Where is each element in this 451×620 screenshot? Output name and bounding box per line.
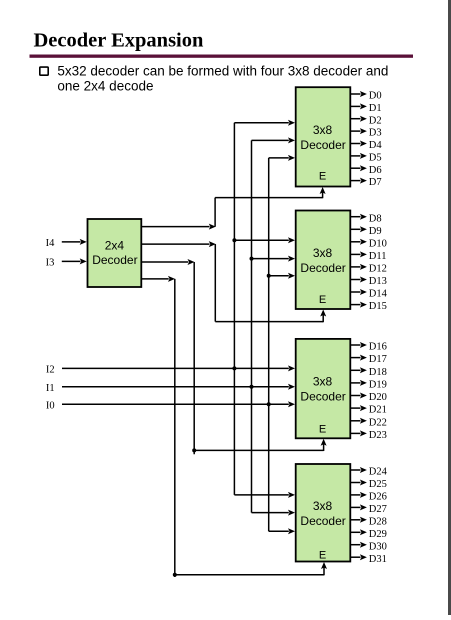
junction node (234,368) xyxy=(232,366,236,370)
wire enable E1 arrow into U2 xyxy=(320,187,326,198)
svg-text:D2: D2 xyxy=(369,115,382,126)
svg-text:D25: D25 xyxy=(369,479,387,490)
output D31 wire and label xyxy=(351,554,387,565)
bus wire vertical A0 (x=268.7) xyxy=(268,158,270,531)
svg-text:I4: I4 xyxy=(46,238,55,249)
bus wire vertical A1 (x=251.5) xyxy=(251,140,253,512)
svg-text:one 2x4 decode: one 2x4 decode xyxy=(57,79,153,94)
svg-text:D4: D4 xyxy=(369,140,383,151)
bus wire vertical A2 (x=234) xyxy=(233,123,235,495)
wire enable E2 arrow into U3 xyxy=(320,310,326,323)
wire bus to U3 input y=259 xyxy=(252,256,296,262)
wire bus to U5 input y=495 xyxy=(234,492,295,498)
svg-text:Decoder: Decoder xyxy=(300,514,345,528)
output D23 wire and label xyxy=(351,430,387,441)
svg-text:2x4: 2x4 xyxy=(105,238,125,252)
svg-text:D7: D7 xyxy=(369,177,382,188)
input I0 wire to decoder U4 xyxy=(62,401,295,407)
input I2 wire to decoder U4 xyxy=(62,365,295,371)
junction node (234,240) xyxy=(232,238,236,242)
wire bus to U2 input y=123 xyxy=(234,120,295,126)
svg-text:D27: D27 xyxy=(369,504,387,515)
output D9 wire and label xyxy=(351,226,382,237)
wire enable net E4 horizontal xyxy=(175,574,324,576)
svg-text:D31: D31 xyxy=(369,554,387,565)
svg-text:E: E xyxy=(319,424,326,436)
svg-text:D10: D10 xyxy=(369,238,387,249)
junction node E3 corner xyxy=(192,448,196,452)
output D30 wire and label xyxy=(351,541,387,552)
wire enable E4 arrow into U5 xyxy=(321,562,327,575)
output D15 wire and label xyxy=(351,301,387,312)
output D29 wire and label xyxy=(351,529,387,540)
svg-text:D30: D30 xyxy=(369,541,387,552)
output D25 wire and label xyxy=(351,479,387,490)
svg-text:3x8: 3x8 xyxy=(313,375,333,389)
svg-text:D18: D18 xyxy=(369,367,387,378)
svg-text:D0: D0 xyxy=(369,91,382,102)
bullet square xyxy=(40,67,48,75)
svg-text:D8: D8 xyxy=(369,213,382,224)
wire bus to U3 input y=276 xyxy=(269,273,295,279)
input I3 wire xyxy=(62,258,87,264)
svg-text:D22: D22 xyxy=(369,417,387,428)
wire U1 output O1 to vertical xyxy=(142,241,216,247)
svg-text:I3: I3 xyxy=(46,258,55,269)
wire bus to U3 input y=240 xyxy=(234,237,295,243)
svg-text:D14: D14 xyxy=(369,289,388,300)
output D18 wire and label xyxy=(351,367,387,378)
output D20 wire and label xyxy=(351,392,387,403)
svg-text:D12: D12 xyxy=(369,264,387,275)
output D26 wire and label xyxy=(351,492,387,503)
wire enable net E4 vertical xyxy=(174,279,176,577)
output D8 wire and label xyxy=(351,213,382,224)
decoder U2 (3x8 Decoder) xyxy=(296,87,351,186)
wire bus to U2 input y=140 xyxy=(252,137,296,143)
decoder U4 (3x8 Decoder) xyxy=(296,339,351,438)
output D11 wire and label xyxy=(351,251,387,262)
svg-text:D1: D1 xyxy=(369,103,382,114)
wire bus to U2 input y=158 xyxy=(269,155,295,161)
svg-text:D13: D13 xyxy=(369,276,387,287)
svg-text:D26: D26 xyxy=(369,492,387,503)
svg-text:D23: D23 xyxy=(369,430,387,441)
svg-text:E: E xyxy=(319,550,326,562)
svg-text:D17: D17 xyxy=(369,354,387,365)
svg-text:D6: D6 xyxy=(369,165,382,176)
svg-text:D21: D21 xyxy=(369,405,387,416)
output D10 wire and label xyxy=(351,238,387,249)
svg-text:D16: D16 xyxy=(369,342,387,353)
wire U1 output O3 to vertical xyxy=(142,276,175,282)
wire enable net E3 horizontal xyxy=(194,449,323,451)
junction node (252,387) xyxy=(250,385,254,389)
svg-text:E: E xyxy=(319,294,326,306)
junction node (269,404) xyxy=(267,402,271,406)
output D27 wire and label xyxy=(351,504,387,515)
svg-text:E: E xyxy=(319,171,326,183)
output D13 wire and label xyxy=(351,276,387,287)
svg-text:3x8: 3x8 xyxy=(313,246,333,260)
svg-text:Decoder: Decoder xyxy=(300,390,345,404)
output D3 wire and label xyxy=(351,128,382,139)
output D0 wire and label xyxy=(351,91,382,102)
wire U1 output O0 to vertical xyxy=(142,224,216,230)
svg-text:D24: D24 xyxy=(369,467,388,478)
svg-text:I1: I1 xyxy=(46,383,55,394)
output D12 wire and label xyxy=(351,264,387,275)
svg-text:Decoder: Decoder xyxy=(92,253,137,267)
wire enable net E2 vertical xyxy=(214,244,216,322)
output D4 wire and label xyxy=(351,140,382,151)
output D16 wire and label xyxy=(351,342,387,353)
svg-text:D15: D15 xyxy=(369,301,387,312)
svg-text:D20: D20 xyxy=(369,392,387,403)
junction node (252,259) xyxy=(250,257,254,261)
svg-text:Decoder: Decoder xyxy=(300,261,345,275)
svg-text:5x32 decoder can be formed wit: 5x32 decoder can be formed with four 3x8… xyxy=(57,63,388,78)
wire enable net E1 vertical xyxy=(214,198,216,227)
svg-text:I2: I2 xyxy=(46,365,55,376)
decoder U5 (3x8 Decoder) xyxy=(296,464,351,562)
svg-text:D11: D11 xyxy=(369,251,387,262)
input I4 wire xyxy=(62,239,87,245)
wire U1 output O2 to vertical xyxy=(142,259,195,265)
svg-text:D9: D9 xyxy=(369,226,382,237)
output D19 wire and label xyxy=(351,380,387,391)
output D7 wire and label xyxy=(351,177,382,188)
output D6 wire and label xyxy=(351,165,382,176)
title underline xyxy=(30,55,414,58)
output D5 wire and label xyxy=(351,153,382,164)
output D17 wire and label xyxy=(351,354,387,365)
output D22 wire and label xyxy=(351,417,387,428)
output D28 wire and label xyxy=(351,516,387,527)
wire enable net E2 horizontal xyxy=(215,321,323,323)
output D14 wire and label xyxy=(351,289,388,300)
decoder U3 (3x8 Decoder) xyxy=(296,211,351,310)
wire enable net E3 vertical xyxy=(193,262,195,454)
junction node E4 corner xyxy=(173,573,177,577)
output D21 wire and label xyxy=(351,405,387,416)
wire enable E3 arrow into U4 xyxy=(321,439,327,451)
svg-text:D19: D19 xyxy=(369,380,387,391)
wire bus to U5 input y=531 xyxy=(269,528,295,534)
decoder U1 (2x4 Decoder) xyxy=(88,219,142,287)
svg-text:3x8: 3x8 xyxy=(313,499,333,513)
slide right border frame xyxy=(448,0,451,615)
svg-text:D3: D3 xyxy=(369,128,382,139)
svg-text:I0: I0 xyxy=(46,401,55,412)
junction node (269,276) xyxy=(267,274,271,278)
output D1 wire and label xyxy=(351,103,382,114)
svg-text:D28: D28 xyxy=(369,516,387,527)
input I1 wire to decoder U4 xyxy=(62,384,295,390)
wire bus to U5 input y=513 xyxy=(252,510,296,516)
output D24 wire and label xyxy=(351,467,388,478)
svg-text:Decoder Expansion: Decoder Expansion xyxy=(34,30,205,52)
svg-text:Decoder: Decoder xyxy=(300,138,345,152)
svg-text:3x8: 3x8 xyxy=(313,123,333,137)
output D2 wire and label xyxy=(351,115,382,126)
svg-text:D5: D5 xyxy=(369,153,382,164)
svg-text:D29: D29 xyxy=(369,529,387,540)
wire enable net E1 horizontal xyxy=(215,197,323,199)
